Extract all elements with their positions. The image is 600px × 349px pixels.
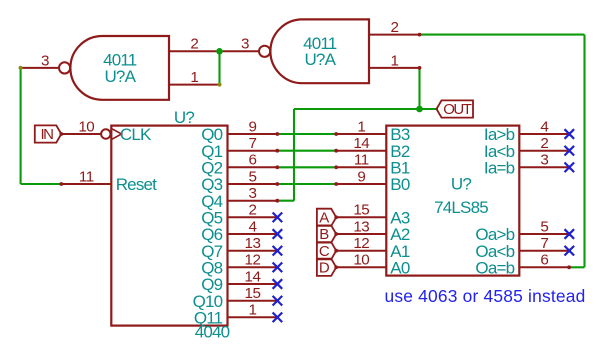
svg-text:Reset: Reset — [116, 175, 157, 194]
svg-text:A0: A0 — [390, 258, 410, 277]
svg-text:1: 1 — [249, 302, 257, 319]
svg-text:13: 13 — [353, 218, 369, 235]
svg-text:13: 13 — [245, 235, 261, 252]
svg-text:U?: U? — [174, 108, 194, 127]
svg-text:10: 10 — [353, 252, 369, 269]
svg-text:9: 9 — [249, 118, 257, 135]
svg-text:OUT: OUT — [443, 101, 472, 118]
svg-text:use 4063 or 4585 instead: use 4063 or 4585 instead — [384, 286, 585, 306]
svg-text:3: 3 — [249, 185, 257, 202]
svg-text:15: 15 — [245, 285, 261, 302]
svg-text:9: 9 — [357, 168, 365, 185]
svg-text:3: 3 — [540, 152, 548, 169]
svg-text:5: 5 — [249, 168, 257, 185]
svg-text:U?: U? — [451, 175, 471, 194]
svg-text:4040: 4040 — [195, 323, 230, 342]
svg-text:2: 2 — [249, 202, 257, 219]
svg-text:15: 15 — [353, 202, 369, 219]
svg-text:12: 12 — [245, 252, 261, 269]
svg-text:14: 14 — [353, 135, 369, 152]
svg-text:3: 3 — [41, 52, 49, 69]
svg-text:4: 4 — [540, 118, 548, 135]
svg-text:1: 1 — [357, 118, 365, 135]
svg-text:12: 12 — [353, 235, 369, 252]
svg-text:3: 3 — [241, 36, 249, 53]
svg-text:74LS85: 74LS85 — [434, 198, 488, 217]
svg-text:6: 6 — [540, 252, 548, 269]
svg-text:14: 14 — [245, 268, 261, 285]
svg-text:B: B — [319, 226, 329, 243]
svg-text:U?A: U?A — [304, 50, 336, 69]
svg-text:6: 6 — [249, 152, 257, 169]
svg-text:Oa=b: Oa=b — [475, 258, 514, 277]
svg-text:7: 7 — [540, 235, 548, 252]
svg-text:1: 1 — [190, 69, 198, 86]
svg-text:IN: IN — [41, 126, 54, 143]
svg-text:5: 5 — [540, 218, 548, 235]
svg-text:U?A: U?A — [104, 67, 136, 86]
svg-text:2: 2 — [391, 19, 399, 36]
svg-text:1: 1 — [391, 52, 399, 69]
svg-text:11: 11 — [354, 152, 369, 169]
svg-text:11: 11 — [79, 168, 94, 185]
svg-text:Ia=b: Ia=b — [484, 158, 515, 177]
svg-text:7: 7 — [249, 135, 257, 152]
svg-text:2: 2 — [540, 135, 548, 152]
svg-text:10: 10 — [78, 118, 94, 135]
svg-text:A: A — [319, 210, 329, 227]
svg-text:CLK: CLK — [120, 125, 152, 144]
svg-text:2: 2 — [190, 36, 198, 53]
svg-text:4: 4 — [249, 218, 257, 235]
svg-text:B0: B0 — [390, 175, 410, 194]
